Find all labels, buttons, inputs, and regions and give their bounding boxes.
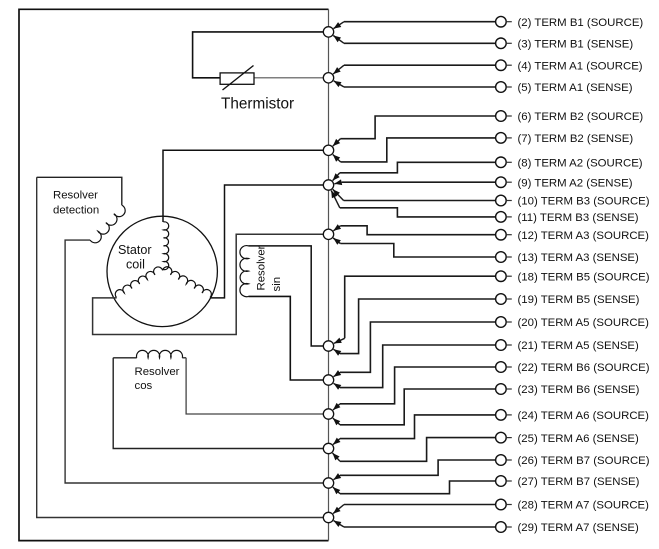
resolver cos coil (top winding) [113, 357, 137, 359]
wire resolver detection inner to J10 [65, 240, 323, 483]
wire stator phase-2 to J4 [210, 185, 323, 298]
wire resolver detection outer to J11 [37, 177, 324, 517]
svg-text:(2) TERM B1 (SOURCE): (2) TERM B1 (SOURCE) [518, 17, 644, 29]
wire terminal (29) to junction J11 [344, 526, 496, 528]
svg-text:Thermistor: Thermistor [221, 96, 294, 113]
terminal pin (28) circle [496, 499, 507, 510]
junction node J8 on bus [323, 409, 333, 419]
svg-text:sin: sin [271, 277, 283, 292]
wire terminal (6) to junction J3 [341, 116, 496, 139]
terminal pin (12) circle [496, 229, 507, 240]
svg-text:detection: detection [53, 204, 99, 216]
terminal pin (10) circle [496, 195, 507, 206]
junction node J1 on bus [323, 27, 333, 37]
svg-text:(10) TERM B3 (SOURCE): (10) TERM B3 (SOURCE) [518, 196, 650, 208]
svg-text:Stator: Stator [118, 243, 152, 257]
wire terminal (2) to junction J1 [344, 21, 496, 23]
wire terminal (13) to junction J5 [340, 244, 495, 258]
svg-text:(13) TERM A3 (SENSE): (13) TERM A3 (SENSE) [518, 252, 640, 264]
junction node J4 on bus [323, 180, 333, 190]
stator coil phase 3 (lower-left winding) [115, 267, 162, 298]
svg-text:coil: coil [126, 258, 145, 272]
wire stator phase-3 to J5 [93, 234, 324, 334]
terminal pin (18) circle [496, 271, 507, 282]
svg-text:(6) TERM B2 (SOURCE): (6) TERM B2 (SOURCE) [518, 111, 644, 123]
wire resolver sin top edge to J6 [249, 246, 324, 346]
junction node J11 on bus [323, 512, 333, 522]
wire thermistor top loop to J1 [193, 32, 324, 78]
svg-text:(19) TERM B5 (SENSE): (19) TERM B5 (SENSE) [518, 294, 640, 306]
bus wire (border right edge / terminal bus) [328, 9, 330, 540]
wire terminal (9) to junction J4 [342, 181, 496, 183]
terminal pin (23) circle [496, 384, 507, 395]
stator coil phase 2 (lower-right winding) [163, 267, 212, 298]
wire resolver detection top edge [37, 177, 122, 205]
terminal pin (22) circle [496, 362, 507, 373]
svg-text:(5) TERM A1 (SENSE): (5) TERM A1 (SENSE) [518, 82, 633, 94]
terminal pin (13) circle [496, 252, 507, 263]
wire terminal (21) to junction J7 [340, 345, 496, 388]
terminal pin (2) circle [496, 16, 507, 27]
svg-text:(18) TERM B5 (SOURCE): (18) TERM B5 (SOURCE) [518, 271, 650, 283]
svg-text:(28) TERM A7 (SOURCE): (28) TERM A7 (SOURCE) [518, 500, 650, 512]
wire terminal (12) to junction J5 [340, 226, 495, 235]
wire terminal (20) to junction J7 [340, 322, 496, 372]
terminal pin (20) circle [496, 317, 507, 328]
wire terminal (28) to junction J11 [344, 504, 496, 506]
stator boundary circle [107, 216, 217, 326]
thermistor RT1 body [220, 73, 254, 84]
terminal pin (8) circle [496, 157, 507, 168]
terminal pin (19) circle [496, 294, 507, 305]
svg-text:(23) TERM B6 (SENSE): (23) TERM B6 (SENSE) [518, 384, 640, 396]
terminal pin (26) circle [496, 455, 507, 466]
svg-text:Resolver: Resolver [256, 245, 268, 290]
svg-text:(22) TERM B6 (SOURCE): (22) TERM B6 (SOURCE) [518, 362, 650, 374]
svg-text:Resolver: Resolver [53, 189, 98, 201]
junction node J2 on bus [323, 73, 333, 83]
wire resolver sin bottom edge to J7 [249, 296, 324, 380]
wire terminal (11) to junction J4 [340, 208, 496, 217]
svg-text:cos: cos [135, 380, 153, 392]
svg-text:(11) TERM B3 (SENSE): (11) TERM B3 (SENSE) [518, 212, 639, 224]
terminal pin (3) circle [496, 38, 507, 49]
stator coil phase 1 (top winding) [164, 222, 169, 270]
terminal pin (11) circle [496, 212, 507, 223]
wire terminal (3) to junction J1 [344, 42, 496, 44]
wire terminal (19) to junction J6 [340, 299, 496, 354]
wire resolver cos left edge to J9 [113, 358, 323, 449]
svg-text:(7) TERM B2 (SENSE): (7) TERM B2 (SENSE) [518, 133, 634, 145]
svg-text:(4) TERM A1 (SOURCE): (4) TERM A1 (SOURCE) [518, 60, 643, 72]
wire resolver cos right edge to J8 [186, 358, 323, 414]
wire terminal (10) to junction J4 [344, 200, 496, 202]
junction node J6 on bus [323, 341, 333, 351]
svg-text:(26) TERM B7 (SOURCE): (26) TERM B7 (SOURCE) [518, 455, 650, 467]
terminal pin (6) circle [496, 111, 507, 122]
svg-text:(24) TERM A6 (SOURCE): (24) TERM A6 (SOURCE) [518, 410, 650, 422]
junction node J3 on bus [323, 145, 333, 155]
motor frame border (left, top, bottom edges) [19, 9, 329, 540]
wire terminal (5) to junction J2 [344, 86, 496, 88]
svg-text:(27) TERM B7 (SENSE): (27) TERM B7 (SENSE) [518, 476, 640, 488]
junction node J5 on bus [323, 229, 333, 239]
wire terminal (4) to junction J2 [344, 64, 496, 66]
wire thermistor to J2 [254, 77, 323, 79]
terminal pin (21) circle [496, 340, 507, 351]
wire terminal (18) to junction J6 [345, 276, 496, 338]
wire terminal (26) to junction J10 [340, 460, 496, 475]
terminal pin (27) circle [496, 476, 507, 487]
terminal pin (25) circle [496, 432, 507, 443]
svg-text:(8) TERM A2 (SOURCE): (8) TERM A2 (SOURCE) [518, 158, 643, 170]
wire terminal (22) to junction J8 [340, 367, 496, 404]
wire terminal (7) to junction J3 [341, 138, 496, 162]
terminal pin (24) circle [496, 410, 507, 421]
svg-text:(21) TERM A5 (SENSE): (21) TERM A5 (SENSE) [518, 340, 640, 352]
wire terminal (24) to junction J9 [340, 415, 496, 439]
svg-text:(12) TERM A3 (SOURCE): (12) TERM A3 (SOURCE) [518, 230, 650, 242]
resolver sin coil (left winding) [240, 246, 249, 297]
wire terminal (27) to junction J10 [340, 481, 496, 494]
wire terminal (8) to junction J4 [340, 162, 496, 173]
terminal pin (4) circle [496, 60, 507, 71]
junction node J9 on bus [323, 443, 333, 453]
terminal pin (5) circle [496, 82, 507, 93]
resolver detection coil (diagonal winding) [90, 205, 125, 243]
svg-text:(29) TERM A7 (SENSE): (29) TERM A7 (SENSE) [518, 522, 640, 534]
terminal pin (29) circle [496, 522, 507, 533]
svg-text:Resolver: Resolver [135, 366, 180, 378]
wire stator phase-1 to J3 [163, 150, 323, 222]
wire terminal (25) to junction J9 [340, 438, 496, 462]
junction node J7 on bus [323, 375, 333, 385]
terminal pin (9) circle [496, 177, 507, 188]
svg-text:(3) TERM B1 (SENSE): (3) TERM B1 (SENSE) [518, 39, 634, 51]
svg-text:(25) TERM A6 (SENSE): (25) TERM A6 (SENSE) [518, 433, 640, 445]
terminal pin (7) circle [496, 133, 507, 144]
junction node J10 on bus [323, 478, 333, 488]
svg-text:(20) TERM A5 (SOURCE): (20) TERM A5 (SOURCE) [518, 317, 650, 329]
svg-text:(9) TERM A2 (SENSE): (9) TERM A2 (SENSE) [518, 177, 633, 189]
wire terminal (23) to junction J8 [340, 389, 496, 425]
